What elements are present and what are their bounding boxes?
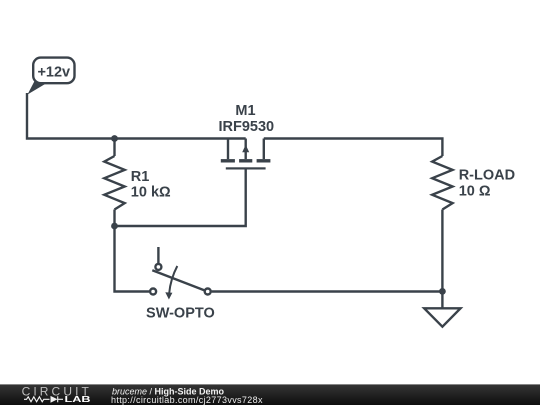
M1 drain stub [263, 139, 265, 160]
wire gate to node A [115, 170, 246, 227]
footer bar [0, 384, 540, 405]
junction dot at ground node [439, 288, 446, 295]
svg-text:IRF9530: IRF9530 [218, 119, 274, 135]
node flag +12v [28, 58, 75, 95]
svg-text:LAB: LAB [65, 395, 91, 404]
M1 body bar [239, 159, 252, 162]
svg-text:+12v: +12v [37, 64, 70, 80]
svg-text:R1: R1 [131, 169, 150, 185]
wire node A down to switch [115, 226, 150, 292]
ground [424, 308, 460, 326]
wire switch to ground node [212, 290, 443, 292]
SW-OPTO lever [152, 270, 204, 290]
M1 body stub with arrow [244, 139, 246, 160]
svg-text:SW-OPTO: SW-OPTO [146, 305, 215, 321]
SW-OPTO arc arrowhead [165, 292, 172, 299]
resistor R1 [104, 156, 124, 210]
wire +12v drop to top rail [27, 93, 246, 139]
wire top rail right segment to R-LOAD [264, 139, 443, 157]
CircuitLab logo diode triangle [51, 396, 58, 403]
wire R-LOAD bottom to ground [441, 210, 443, 309]
wire R1 bottom stub [113, 210, 115, 227]
svg-text:M1: M1 [235, 103, 255, 119]
SW-OPTO right terminal [205, 289, 211, 295]
transistor M1 (PMOS IRF9530) [221, 139, 271, 170]
resistor R-LOAD [432, 156, 452, 210]
M1 source stub [227, 139, 229, 160]
M1 drain bar [257, 159, 271, 162]
svg-text:10 kΩ: 10 kΩ [131, 185, 171, 201]
svg-text:10 Ω: 10 Ω [459, 183, 491, 199]
svg-text:http://circuitlab.com/cj2773vv: http://circuitlab.com/cj2773vvs728x [111, 395, 263, 405]
SW-OPTO actuation arc [169, 266, 177, 293]
SW-OPTO pivot terminal [155, 264, 161, 270]
SW-OPTO left terminal [150, 289, 156, 295]
switch SW-OPTO [150, 247, 211, 295]
M1 source bar [221, 159, 235, 162]
wire R1 top stub [113, 139, 115, 157]
junction node A (R1 bottom / gate) [111, 223, 118, 230]
CircuitLab logo resistor-diode glyph [24, 396, 63, 402]
M1 gate plate [226, 167, 266, 169]
svg-text:R-LOAD: R-LOAD [459, 168, 515, 184]
SW-OPTO top stub [157, 247, 159, 264]
junction dot at R1 top [111, 135, 118, 142]
